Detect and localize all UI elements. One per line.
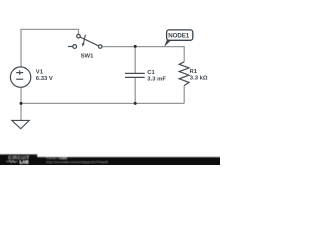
watermark bar [0, 157, 222, 168]
lever [80, 37, 99, 46]
arrowhead of actuation arrow [82, 43, 85, 47]
watermark logo block [0, 154, 37, 167]
svg-text:http://circuitlab.com/c/dqagmb: http://circuitlab.com/c/dqagmbn74kap8 [46, 160, 108, 164]
node flag NODE1 box [167, 30, 193, 40]
svg-text:SW1: SW1 [81, 54, 94, 60]
wire junction to ground [20, 103, 22, 120]
wire resistor bottom to bottom rail [183, 86, 185, 104]
svg-text:V1: V1 [36, 69, 44, 75]
label V1 value [36, 69, 53, 82]
junction dot capacitor/bottom rail [134, 102, 137, 105]
node flag NODE1 tail [164, 40, 171, 47]
svg-text:3.3 mF: 3.3 mF [147, 77, 166, 83]
svg-text:NODE1: NODE1 [168, 32, 189, 39]
wire top-left: V1 top to switch common [21, 29, 79, 67]
wire bottom rail [21, 102, 184, 104]
svg-text:R1: R1 [190, 69, 198, 75]
wire capacitor top lead [134, 46, 136, 73]
svg-text:6.33 V: 6.33 V [36, 76, 53, 82]
left throw stub [68, 46, 73, 48]
wire switch right throw to resistor top (node NODE1) [102, 47, 184, 62]
resistor R1 [179, 62, 189, 86]
wire V1 bottom to junction [20, 87, 22, 103]
junction dot capacitor/top wire [134, 45, 137, 48]
svg-text:C1: C1 [147, 70, 155, 76]
ground [12, 120, 30, 128]
terminal circle left throw [73, 45, 77, 49]
svg-text:3.3 kΩ: 3.3 kΩ [190, 75, 208, 81]
switch SW1 [68, 34, 102, 48]
terminal circle common (top) [77, 34, 81, 38]
terminal circle right throw [99, 45, 102, 48]
voltage source V1 [10, 67, 30, 87]
wire capacitor bottom lead [134, 78, 136, 104]
actuation arrow [83, 35, 85, 44]
label C1 value [147, 70, 166, 83]
svg-text:LAB: LAB [20, 159, 29, 164]
junction dot V1/bottom rail [20, 102, 23, 105]
label R1 value [190, 69, 208, 82]
capacitor C1 [125, 73, 145, 77]
watermark logo zigzag [6, 160, 17, 162]
